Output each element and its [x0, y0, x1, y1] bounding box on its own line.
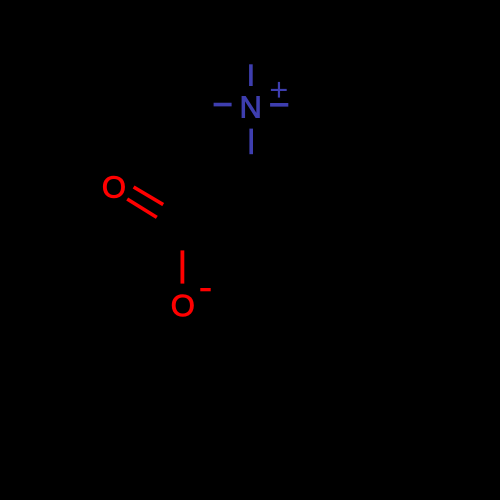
charge minus on O2	[200, 288, 210, 291]
double bond C=O1 upper line (red half)	[134, 187, 164, 205]
double bond C=O1 lower line (red half)	[127, 199, 157, 217]
bond N1-C2 down (blue half)	[249, 129, 253, 155]
svg-text:N: N	[240, 90, 262, 125]
bond C-O2 vertical (red half)	[180, 250, 184, 283]
bond N1-C methyl left (blue half)	[214, 103, 232, 107]
bond N1-C methyl right (blue half)	[270, 103, 288, 107]
bond N1-C methyl up (blue half)	[249, 64, 253, 86]
svg-text:O: O	[171, 288, 195, 323]
svg-text:O: O	[102, 169, 126, 204]
charge plus on N1	[271, 82, 287, 98]
